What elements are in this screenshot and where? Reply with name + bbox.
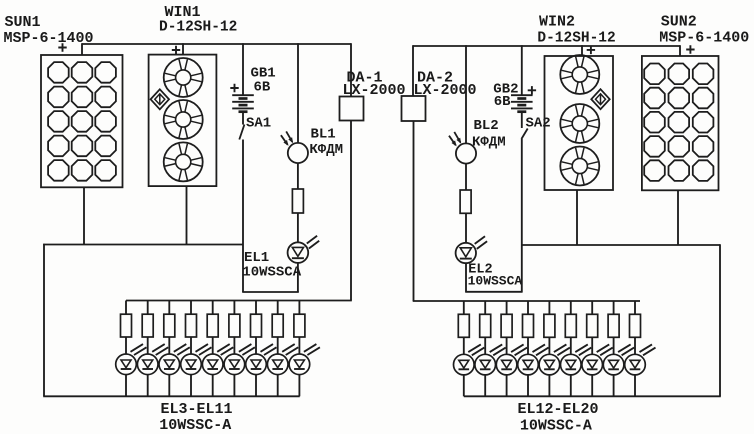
resistor (EL13 branch) xyxy=(480,314,491,337)
resistor (EL4 branch) xyxy=(142,314,153,337)
turbine rotor 1 (WIN2) xyxy=(560,55,599,94)
svg-text:BL1: BL1 xyxy=(311,126,336,142)
wire: SUN2 positive stub xyxy=(679,45,681,56)
turbine rotor 2 (WIN2) xyxy=(560,104,599,143)
controller DA-1 xyxy=(340,97,364,121)
wire: resistor to EL15 xyxy=(527,337,529,354)
wire: EL18 feed stub xyxy=(591,301,593,314)
wire: resistor to EL13 xyxy=(484,337,486,354)
LED lamp EL3 xyxy=(116,344,147,375)
lamp branch EL5 xyxy=(159,301,190,397)
LED lamp EL13 xyxy=(475,344,506,375)
wire: right lamp feed bus xyxy=(413,300,640,302)
svg-text:10WSSCA: 10WSSCA xyxy=(242,264,301,280)
switch SA2 xyxy=(521,129,527,140)
wire: right top bus xyxy=(413,45,680,47)
resistor (EL9 branch) xyxy=(251,314,262,337)
wire: GB2 branch top xyxy=(521,45,523,95)
wire: EL7 feed stub xyxy=(212,301,214,315)
resistor (EL10 branch) xyxy=(272,314,283,337)
resistor (EL15 branch) xyxy=(523,314,534,337)
wire: EL5 feed stub xyxy=(168,301,170,315)
wire: SUN2 negative lead xyxy=(677,190,679,245)
svg-text:6B: 6B xyxy=(494,94,511,110)
svg-text:D-12SH-12: D-12SH-12 xyxy=(537,31,615,47)
svg-text:10WSSC-A: 10WSSC-A xyxy=(520,418,592,434)
battery GB1 xyxy=(232,95,254,112)
resistor (EL1 branch) xyxy=(292,189,303,213)
turbine rotor 3 (WIN1) xyxy=(164,142,203,181)
photodetector BL1 xyxy=(281,131,308,163)
lamp branch EL18 xyxy=(582,301,613,396)
wire: EL7 return stub xyxy=(212,375,214,397)
wire: DA-1 output lead xyxy=(350,121,352,301)
wire: EL8 return stub xyxy=(233,375,235,397)
turbine rotor 3 (WIN2) xyxy=(560,147,599,186)
lamp branch EL7 xyxy=(202,301,233,397)
wire: EL6 feed stub xyxy=(190,301,192,315)
wire: resistor to EL6 xyxy=(190,337,192,354)
resistor (EL14 branch) xyxy=(501,314,512,337)
wire: EL5 return stub xyxy=(168,375,170,397)
wind generator WIN2 xyxy=(545,55,614,190)
wire: EL15 return stub xyxy=(527,375,529,396)
wire: BL1 to resistor xyxy=(297,163,299,189)
svg-text:BL2: BL2 xyxy=(474,118,499,134)
lamp branch EL12 xyxy=(454,301,485,396)
wire: EL12 return stub xyxy=(463,375,465,396)
wire: EL13 feed stub xyxy=(484,301,486,314)
wire: SUN1 positive stub xyxy=(81,43,83,55)
wire: WIN2 negative lead xyxy=(576,190,578,245)
resistor (EL5 branch) xyxy=(164,314,175,337)
wire: EL10 feed stub xyxy=(277,301,279,315)
svg-text:MSP-6-1400: MSP-6-1400 xyxy=(4,30,94,47)
lamp branch EL8 xyxy=(224,301,255,397)
lamp branch EL6 xyxy=(181,301,212,397)
wire: resistor to EL18 xyxy=(591,337,593,354)
resistor (EL18 branch) xyxy=(587,314,598,337)
LED lamp EL5 xyxy=(159,344,190,375)
wire: resistor to EL14 xyxy=(506,337,508,354)
svg-text:КФДМ: КФДМ xyxy=(309,142,343,158)
wire: resistor to EL11 xyxy=(298,337,300,354)
wire: right outer return xyxy=(719,244,721,396)
wire: EL11 return stub xyxy=(298,375,300,397)
wire: SUN1 negative lead xyxy=(83,187,85,244)
LED lamp EL14 xyxy=(496,344,527,375)
solar panel SUN1 xyxy=(41,55,123,187)
svg-text:КФДМ: КФДМ xyxy=(472,135,506,151)
svg-text:6B: 6B xyxy=(254,79,271,95)
wire: resistor to EL7 xyxy=(212,337,214,354)
wire: WIN1 negative lead xyxy=(186,186,188,244)
rectifier diamond (WIN2) xyxy=(591,89,609,109)
wire: resistor to EL20 xyxy=(634,337,636,354)
LED lamp EL20 xyxy=(625,344,656,375)
photodetector BL2 xyxy=(449,132,476,164)
lamp branch EL15 xyxy=(518,301,549,396)
wire: GB1 to SA1 xyxy=(242,112,244,125)
wire: right bottom bus xyxy=(464,395,721,397)
wire: EL18 return stub xyxy=(591,375,593,396)
wire: EL17 return stub xyxy=(570,375,572,396)
wire: DA-2 input stub xyxy=(412,45,414,96)
resistor (EL3 branch) xyxy=(121,314,132,337)
lamp branch EL19 xyxy=(603,301,634,396)
wire: left middle bus xyxy=(43,244,243,246)
wire: WIN1 positive stub xyxy=(182,43,184,55)
LED lamp EL6 xyxy=(181,344,212,375)
polarity mark + (WIN1) xyxy=(172,46,180,54)
lamp branch EL9 xyxy=(246,301,277,397)
wire: resistor to EL8 xyxy=(233,337,235,354)
wire: EL1 bottom return xyxy=(242,291,299,293)
rectifier diamond (WIN1) xyxy=(151,89,169,109)
wire: SA1 down to EL1 corner xyxy=(242,140,244,293)
wire: resistor to EL2 xyxy=(465,213,467,243)
wire: right middle bus xyxy=(522,244,720,246)
wire: EL1 cathode lead xyxy=(297,263,299,292)
wire: EL4 feed stub xyxy=(147,301,149,315)
lamp EL2 xyxy=(456,236,488,263)
wire: left bottom bus xyxy=(43,395,300,397)
wire: BL2 to resistor xyxy=(465,164,467,190)
wire: EL2 bottom return xyxy=(465,291,522,293)
svg-text:EL3-EL11: EL3-EL11 xyxy=(161,401,233,418)
wire: resistor to EL9 xyxy=(255,337,257,354)
wire: EL20 return stub xyxy=(634,375,636,396)
battery GB2 xyxy=(511,95,533,112)
svg-text:LX-2000: LX-2000 xyxy=(414,82,477,99)
wire: resistor to EL12 xyxy=(463,337,465,354)
wire: resistor to EL17 xyxy=(570,337,572,354)
wire: left top bus xyxy=(82,43,351,45)
wire: resistor to EL4 xyxy=(147,337,149,354)
lamp branch EL20 xyxy=(625,301,656,396)
LED lamp EL19 xyxy=(603,344,634,375)
wire: EL3 feed stub xyxy=(125,301,127,315)
turbine rotor 1 (WIN1) xyxy=(164,58,203,97)
resistor (EL6 branch) xyxy=(186,314,197,337)
polarity mark + (WIN2) xyxy=(587,46,595,54)
LED lamp EL12 xyxy=(454,344,485,375)
lamp branch EL16 xyxy=(539,301,570,396)
lamp branch EL10 xyxy=(267,301,298,397)
LED lamp EL9 xyxy=(246,344,277,375)
lamp branch EL14 xyxy=(496,301,527,396)
wire: resistor to EL16 xyxy=(548,337,550,354)
LED lamp EL4 xyxy=(137,344,168,375)
wire: EL9 return stub xyxy=(255,375,257,397)
polarity mark + (SUN1) xyxy=(58,43,66,51)
LED lamp EL10 xyxy=(267,344,298,375)
wire: resistor to EL19 xyxy=(613,337,615,354)
svg-text:10WSSC-A: 10WSSC-A xyxy=(159,417,231,434)
switch SA1 xyxy=(239,125,244,140)
LED lamp EL17 xyxy=(561,344,592,375)
resistor (EL7 branch) xyxy=(207,314,218,337)
wire: EL11 feed stub xyxy=(298,301,300,315)
wire: WIN2 positive stub xyxy=(581,45,583,56)
wire: left lamp feed bus xyxy=(126,300,352,302)
resistor (EL20 branch) xyxy=(630,314,641,337)
polarity mark + (GB2) xyxy=(528,86,536,94)
wire: resistor to EL3 xyxy=(125,337,127,354)
wire: EL3 return stub xyxy=(125,375,127,397)
wire: GB1 branch top xyxy=(242,43,244,95)
wire: EL14 return stub xyxy=(506,375,508,396)
LED lamp EL18 xyxy=(582,344,613,375)
wire: resistor to EL10 xyxy=(277,337,279,354)
wire: EL14 feed stub xyxy=(506,301,508,314)
wire: DA-2 output lead xyxy=(413,121,415,301)
wire: EL8 feed stub xyxy=(233,301,235,315)
wire: EL9 feed stub xyxy=(255,301,257,315)
svg-text:WIN2: WIN2 xyxy=(539,13,575,30)
resistor (EL8 branch) xyxy=(229,314,240,337)
svg-text:SA2: SA2 xyxy=(526,116,551,132)
LED lamp EL11 xyxy=(289,344,320,375)
wind generator WIN1 xyxy=(149,55,217,187)
wire: SA2 down to EL2 corner xyxy=(521,139,523,292)
wire: EL4 return stub xyxy=(147,375,149,397)
resistor (EL2 branch) xyxy=(460,190,471,213)
resistor (EL12 branch) xyxy=(458,314,469,337)
lamp branch EL17 xyxy=(561,301,592,396)
svg-text:MSP-6-1400: MSP-6-1400 xyxy=(659,30,749,47)
controller DA-2 xyxy=(402,96,426,121)
wire: EL17 feed stub xyxy=(570,301,572,314)
solar panel SUN2 xyxy=(642,56,719,190)
turbine rotor 2 (WIN1) xyxy=(164,100,203,139)
LED lamp EL15 xyxy=(518,344,549,375)
resistor (EL19 branch) xyxy=(608,314,619,337)
lamp branch EL4 xyxy=(137,301,168,397)
wire: DA-1 input stub xyxy=(350,43,352,96)
resistor (EL17 branch) xyxy=(565,314,576,337)
resistor (EL11 branch) xyxy=(294,314,305,337)
wire: EL12 feed stub xyxy=(463,301,465,314)
polarity mark + (SUN2) xyxy=(686,45,694,53)
polarity mark + (GB1) xyxy=(230,84,238,92)
svg-text:SUN2: SUN2 xyxy=(661,13,697,30)
wire: EL13 return stub xyxy=(484,375,486,396)
lamp branch EL13 xyxy=(475,301,506,396)
wire: left outer return xyxy=(43,244,45,397)
wire: EL10 return stub xyxy=(277,375,279,397)
wire: EL20 feed stub xyxy=(634,301,636,314)
wire: EL19 feed stub xyxy=(613,301,615,314)
wire: GB2 to SA2 xyxy=(521,112,523,128)
svg-text:SUN1: SUN1 xyxy=(5,14,41,31)
LED lamp EL8 xyxy=(224,344,255,375)
resistor (EL16 branch) xyxy=(544,314,555,337)
svg-text:EL12-EL20: EL12-EL20 xyxy=(518,401,599,418)
wire: EL2 cathode lead xyxy=(465,263,467,292)
wire: resistor to EL1 xyxy=(297,213,299,242)
wire: EL6 return stub xyxy=(190,375,192,397)
wire: EL19 return stub xyxy=(613,375,615,396)
LED lamp EL7 xyxy=(202,344,233,375)
wire: EL16 feed stub xyxy=(548,301,550,314)
svg-text:D-12SH-12: D-12SH-12 xyxy=(159,19,237,35)
svg-text:10WSSCA: 10WSSCA xyxy=(468,274,523,289)
svg-text:SA1: SA1 xyxy=(246,115,271,131)
LED lamp EL16 xyxy=(539,344,570,375)
svg-text:LX-2000: LX-2000 xyxy=(343,82,406,99)
wire: resistor to EL5 xyxy=(168,337,170,354)
lamp branch EL3 xyxy=(116,301,147,397)
wire: BL1 branch top xyxy=(297,43,299,143)
wire: EL16 return stub xyxy=(548,375,550,396)
wire: EL15 feed stub xyxy=(527,301,529,314)
wire: BL2 branch top xyxy=(465,45,467,143)
lamp branch EL11 xyxy=(289,301,320,397)
lamp EL1 xyxy=(288,236,320,263)
